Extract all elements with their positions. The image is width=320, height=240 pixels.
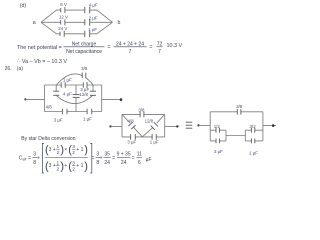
capacitor 1uF plates (bottom rail right) [87, 109, 92, 115]
wire left terminal to box [25, 98, 44, 100]
svg-text:3 µF: 3 µF [80, 87, 89, 92]
wire top rail segments [44, 84, 101, 86]
svg-text:3/8: 3/8 [236, 104, 243, 109]
svg-text:): ) [84, 144, 88, 156]
svg-text:10.3 V: 10.3 V [167, 43, 183, 49]
svg-text:(a): (a) [17, 66, 23, 72]
wire middle connector [226, 135, 245, 137]
svg-text:3 +: 3 + [49, 147, 56, 153]
svg-text:1 µF: 1 µF [83, 117, 92, 122]
wire left edge [121, 114, 123, 136]
equivalence symbol [186, 122, 193, 128]
wire fan from node a to top branch [41, 10, 60, 22]
battery 6V plates [61, 7, 65, 13]
svg-text:7: 7 [129, 49, 132, 55]
wire right terminal [102, 99, 122, 101]
big equation row [19, 152, 40, 166]
capacitor 3/8 plates (top rail) [237, 109, 241, 115]
capacitor plates (combo2 top) [251, 128, 254, 133]
svg-text:4/8: 4/8 [128, 118, 135, 123]
capacitor plates (combo1 top) [216, 128, 219, 133]
capacitor 3uF plates (bottom left) [131, 134, 136, 140]
capacitor 3uF plates (top rail right) [83, 82, 87, 88]
svg-text:3 µF: 3 µF [127, 140, 136, 145]
capacitor 1uF plates (top rail left) [61, 82, 65, 87]
node output dot [176, 125, 178, 127]
svg-text:∴ Va – Vb = – 10.3 V: ∴ Va – Vb = – 10.3 V [17, 59, 67, 65]
wire combo1 right edge [225, 130, 227, 141]
svg-text:+: + [64, 163, 67, 169]
capacitor 4uF (middle vertical branch) [75, 85, 77, 95]
svg-text:3 µF: 3 µF [214, 149, 223, 154]
svg-text:4 µF: 4 µF [63, 92, 72, 97]
svg-text:+: + [37, 155, 40, 161]
wire left edge of box [43, 85, 45, 112]
svg-text:35: 35 [104, 152, 110, 158]
svg-text:µF: µF [146, 157, 152, 163]
svg-text:12 V: 12 V [59, 14, 68, 19]
wire between 24V battery and 1uF capacitor [64, 33, 85, 35]
svg-text:=: = [107, 45, 110, 51]
wire input [199, 124, 211, 126]
capacitor 12/8 plates (right diagonal) [151, 122, 158, 130]
svg-text:+: + [100, 155, 103, 161]
node right terminal dot [120, 98, 123, 101]
svg-text:1 µF: 1 µF [150, 140, 159, 145]
main bar [45, 157, 88, 159]
svg-text:×: × [64, 147, 67, 153]
svg-text:6: 6 [138, 160, 141, 166]
wire bottom edge segments [122, 136, 165, 138]
svg-text:1 µF: 1 µF [63, 77, 72, 82]
svg-text:=: = [28, 155, 31, 161]
parallel combo 3/2 : top branch [245, 129, 263, 131]
wire output [165, 125, 178, 127]
svg-text:3: 3 [33, 152, 36, 158]
svg-text:4 µF: 4 µF [89, 3, 98, 8]
capacitor 2uF plates [85, 19, 90, 26]
wire fan from node a to middle branch [41, 21, 60, 23]
node input dot [197, 124, 199, 126]
wire capacitor 1uF to node b [90, 22, 113, 34]
node left terminal dot [24, 98, 26, 100]
svg-text:24 + 24 + 24: 24 + 24 + 24 [116, 41, 144, 47]
svg-text:b: b [118, 20, 121, 26]
svg-text:7: 7 [158, 49, 161, 55]
svg-text:The net potential =: The net potential = [17, 45, 62, 51]
wire right edge [164, 114, 166, 136]
wire left edge [209, 112, 211, 141]
svg-text:11: 11 [137, 152, 142, 158]
svg-text:4/8: 4/8 [46, 104, 53, 109]
node input dot [109, 125, 111, 127]
ellipse bottom arc [56, 95, 93, 103]
svg-text:eff: eff [23, 158, 27, 162]
svg-text:24: 24 [104, 160, 110, 166]
svg-text:72: 72 [157, 41, 163, 47]
wire right edge [262, 112, 264, 141]
svg-text:2 µF: 2 µF [89, 15, 98, 20]
svg-text:=: = [91, 155, 94, 161]
wire fan from node a to bottom branch [41, 22, 60, 34]
svg-text:3 +: 3 + [49, 163, 56, 169]
ellipse top arc with 3/8 capacitor [56, 74, 93, 85]
svg-text:Net capacitance: Net capacitance [66, 49, 102, 55]
wire between 6V battery and 4uF capacitor [65, 9, 85, 11]
svg-text:1 µF: 1 µF [88, 27, 97, 32]
svg-text:=: = [132, 155, 135, 161]
capacitor 1uF plates (bottom right) [152, 134, 156, 140]
svg-text:+ 1: + 1 [76, 163, 83, 169]
svg-text:3/2: 3/2 [250, 124, 257, 129]
capacitor 1uF plates [85, 30, 90, 37]
wire capacitor 4uF to node b [90, 10, 113, 22]
parallel combo 3/2 : bottom branch [245, 140, 263, 142]
svg-text:8: 8 [33, 160, 36, 166]
svg-text:=: = [149, 45, 152, 51]
svg-text:24 V: 24 V [58, 26, 67, 31]
svg-text:24: 24 [121, 160, 127, 166]
svg-text:+ 1: + 1 [76, 147, 83, 153]
capacitor 3/8 plates (on arc) [82, 73, 86, 79]
capacitor 4uF plates [85, 7, 90, 14]
svg-text:=: = [112, 155, 115, 161]
svg-text:1/2: 1/2 [214, 124, 221, 129]
battery 24V plates [60, 31, 64, 37]
svg-text:By star Delta conversion: By star Delta conversion [21, 136, 75, 142]
parallel combo 1/2 : bottom branch [210, 140, 226, 142]
svg-text:12/8: 12/8 [79, 92, 88, 97]
svg-text:3/8: 3/8 [81, 66, 88, 71]
svg-text:Net charge: Net charge [72, 41, 97, 47]
svg-text:6 V: 6 V [60, 2, 67, 7]
capacitor (right vertical) wire and plates [92, 85, 94, 92]
svg-text:12/8: 12/8 [145, 118, 154, 123]
svg-text:3 µF: 3 µF [54, 117, 63, 122]
wire output [263, 125, 276, 127]
svg-text:): ) [84, 160, 88, 172]
svg-text:1 µF: 1 µF [249, 150, 258, 155]
capacitor 3/8 plates (top edge) [140, 112, 144, 118]
wire right edge of box [101, 85, 103, 112]
svg-text:26.: 26. [5, 66, 12, 72]
wire left diagonal 4/8 branch [122, 114, 142, 136]
svg-text:(d): (d) [20, 3, 27, 9]
wire bottom rail segments [44, 111, 101, 113]
wire capacitor 2uF to node b [90, 21, 113, 23]
capacitor 3uF plates (bottom rail left) [62, 109, 67, 115]
wire right diagonal 12/8 branch [142, 114, 164, 136]
wire combo2 left edge [244, 130, 246, 141]
capacitor 4/8 plates (left diagonal) [128, 122, 135, 129]
wire input to bridge [111, 125, 123, 127]
capacitor plates (combo2 bottom) [251, 139, 254, 144]
svg-text:a: a [33, 20, 36, 26]
wire top edge segments [122, 113, 165, 115]
wire top rail segments [210, 111, 263, 113]
svg-text:9 + 35: 9 + 35 [117, 152, 131, 158]
node output dot [272, 124, 275, 127]
svg-text:3/8: 3/8 [138, 107, 145, 112]
wire between 12V battery and 2uF capacitor [65, 21, 85, 23]
battery 12V plates [61, 19, 65, 25]
parallel combo 1/2 : top branch [210, 129, 226, 131]
capacitor plates (combo1 bottom) [216, 139, 219, 144]
capacitor (left vertical) wire and plates [55, 85, 57, 91]
